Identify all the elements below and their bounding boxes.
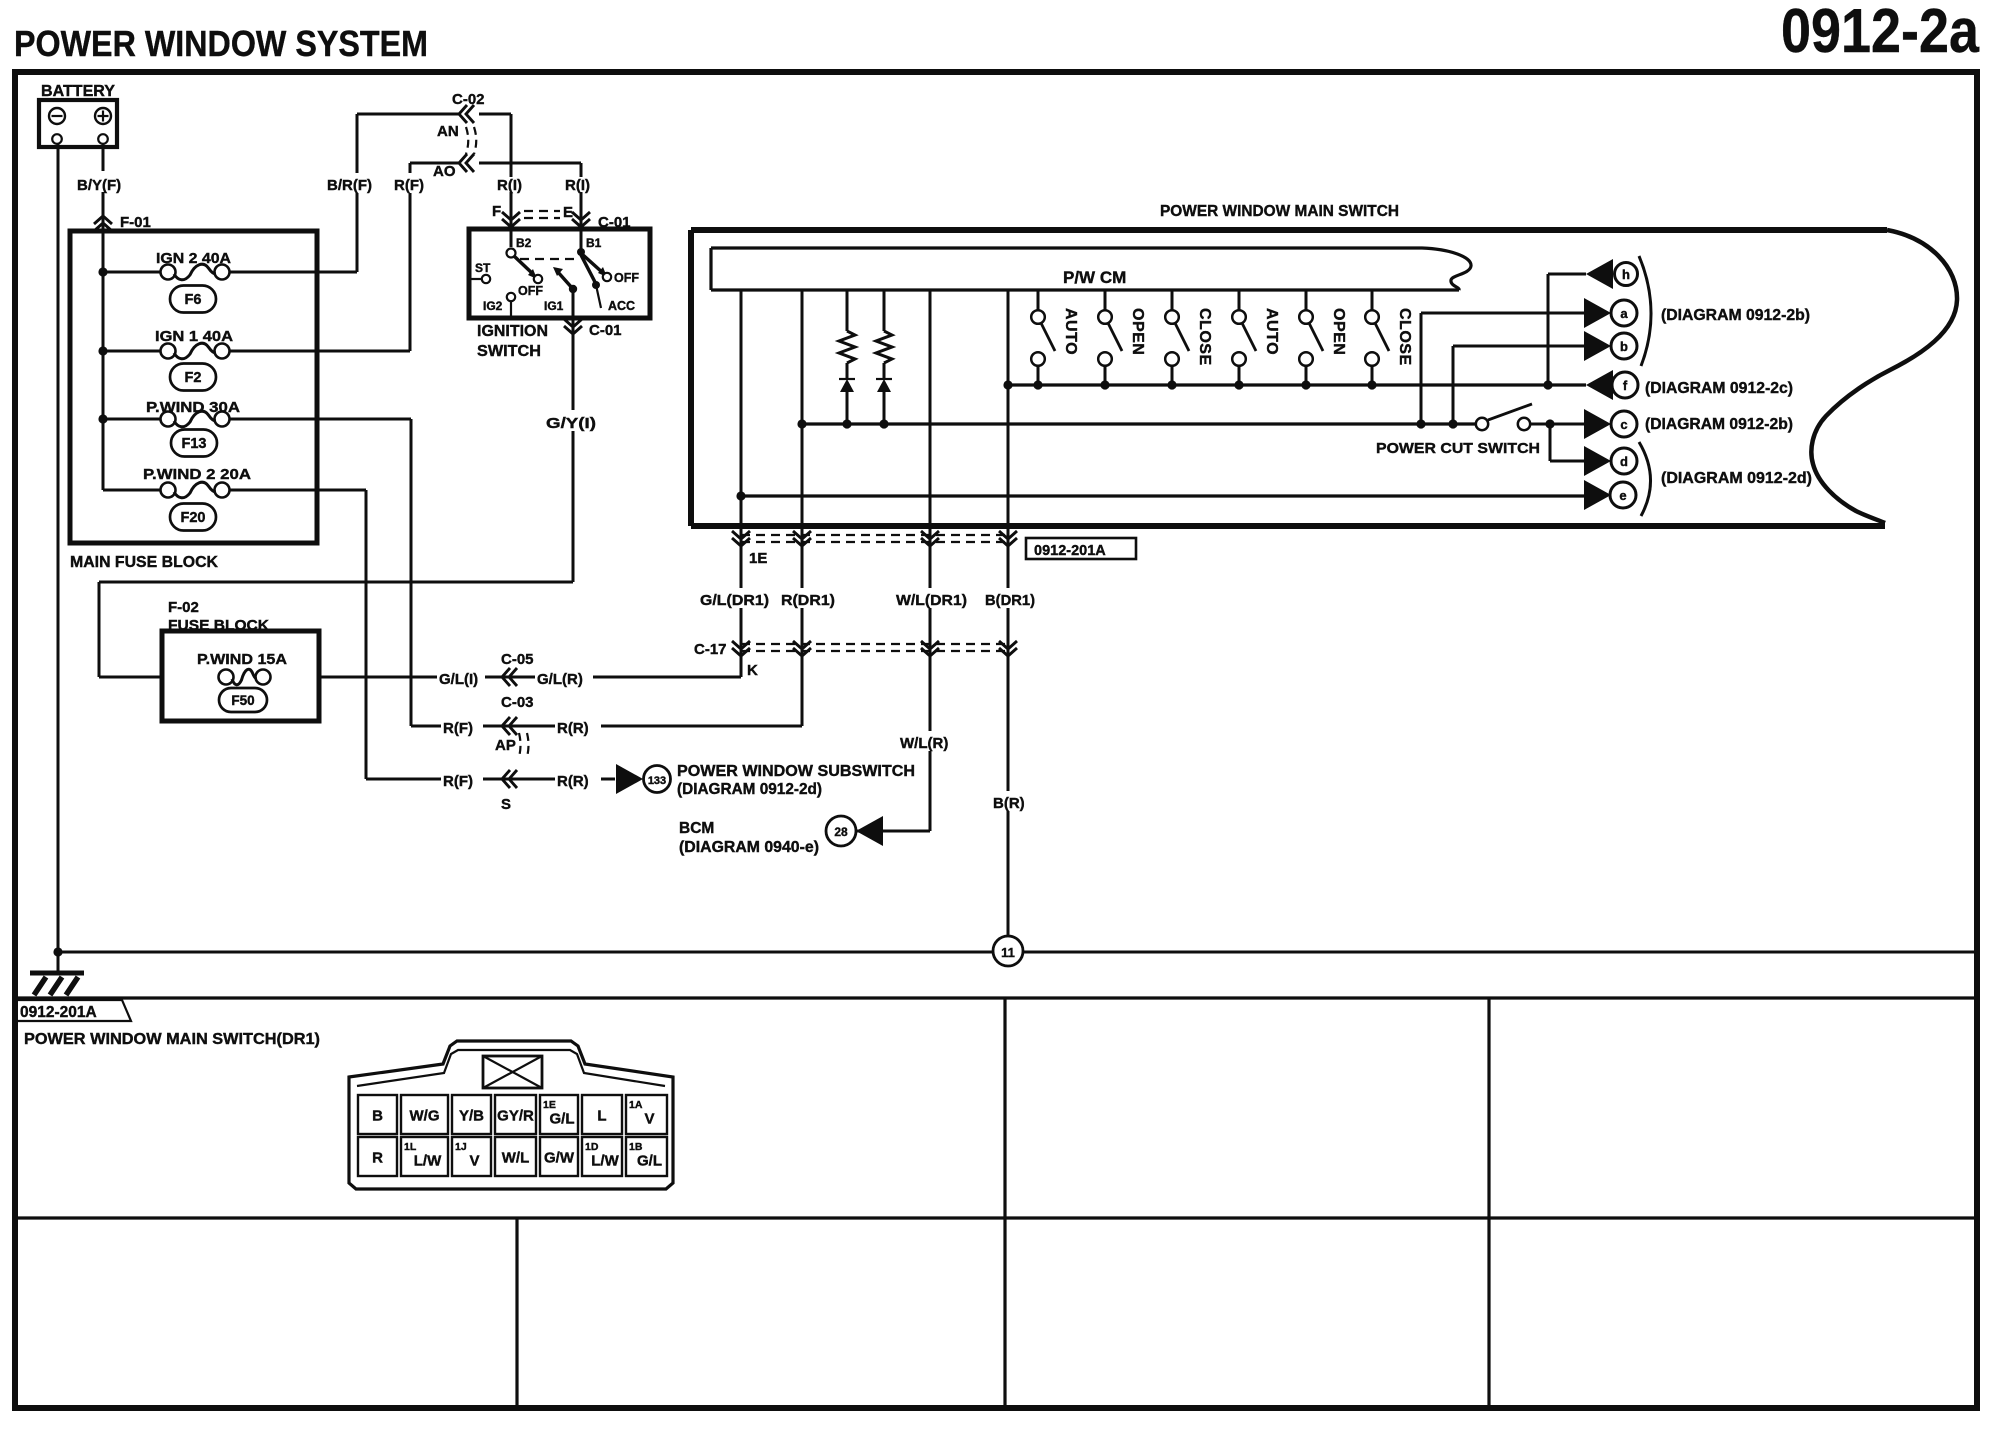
svg-text:G/L(I): G/L(I) — [439, 671, 478, 688]
svg-text:W/G: W/G — [410, 1108, 440, 1125]
svg-text:GY/R: GY/R — [497, 1108, 534, 1125]
svg-text:C-05: C-05 — [501, 651, 534, 668]
svg-text:11: 11 — [1001, 945, 1015, 960]
svg-text:ACC: ACC — [608, 299, 635, 313]
svg-text:B/Y(F): B/Y(F) — [77, 177, 121, 194]
svg-text:G/L: G/L — [637, 1153, 662, 1170]
svg-text:IG2: IG2 — [483, 299, 503, 313]
svg-text:AO: AO — [433, 163, 456, 180]
svg-text:POWER WINDOW MAIN SWITCH: POWER WINDOW MAIN SWITCH — [1160, 203, 1399, 220]
svg-text:OPEN: OPEN — [1330, 308, 1347, 355]
svg-text:1B: 1B — [629, 1141, 643, 1153]
svg-text:B/R(F): B/R(F) — [327, 177, 372, 194]
svg-text:G/W: G/W — [544, 1150, 575, 1167]
svg-text:B(R): B(R) — [993, 795, 1025, 812]
svg-text:P.WIND 2 20A: P.WIND 2 20A — [143, 466, 251, 483]
svg-text:(DIAGRAM 0912-2b): (DIAGRAM 0912-2b) — [1661, 307, 1810, 324]
svg-text:L/W: L/W — [591, 1153, 619, 1170]
svg-text:B(DR1): B(DR1) — [985, 592, 1035, 609]
svg-text:(DIAGRAM 0912-2d): (DIAGRAM 0912-2d) — [677, 781, 822, 798]
svg-text:BATTERY: BATTERY — [41, 83, 115, 100]
svg-text:SWITCH: SWITCH — [477, 343, 541, 360]
svg-text:IGNITION: IGNITION — [477, 323, 548, 340]
svg-text:C-02: C-02 — [452, 91, 485, 108]
svg-text:F20: F20 — [181, 510, 206, 526]
svg-text:1L: 1L — [404, 1141, 417, 1153]
svg-text:G/L: G/L — [550, 1111, 575, 1128]
svg-text:OFF: OFF — [518, 284, 543, 298]
svg-text:R(R): R(R) — [557, 720, 589, 737]
svg-text:1E: 1E — [749, 550, 767, 567]
svg-text:V: V — [644, 1111, 654, 1128]
svg-text:R(F): R(F) — [443, 773, 473, 790]
svg-text:W/L: W/L — [502, 1150, 530, 1167]
svg-text:CLOSE: CLOSE — [1196, 308, 1213, 366]
svg-text:Y/B: Y/B — [459, 1108, 484, 1125]
svg-text:R(R): R(R) — [557, 773, 589, 790]
svg-text:B2: B2 — [516, 236, 532, 250]
svg-text:G/L(R): G/L(R) — [537, 671, 583, 688]
svg-text:F-02: F-02 — [168, 599, 199, 616]
svg-text:F: F — [492, 203, 501, 220]
svg-text:F2: F2 — [185, 370, 202, 386]
svg-text:F13: F13 — [182, 436, 207, 452]
svg-text:0912-2a: 0912-2a — [1781, 0, 1979, 66]
svg-text:d: d — [1620, 454, 1628, 469]
svg-text:POWER CUT SWITCH: POWER CUT SWITCH — [1376, 440, 1540, 457]
svg-text:c: c — [1620, 417, 1627, 432]
svg-text:BCM: BCM — [679, 820, 714, 837]
svg-text:POWER WINDOW SYSTEM: POWER WINDOW SYSTEM — [14, 23, 428, 64]
svg-text:B: B — [372, 1108, 383, 1125]
svg-text:e: e — [1619, 488, 1626, 503]
svg-text:R(DR1): R(DR1) — [781, 592, 835, 609]
svg-text:G/Y(I): G/Y(I) — [546, 415, 596, 432]
svg-text:POWER WINDOW MAIN SWITCH(DR1): POWER WINDOW MAIN SWITCH(DR1) — [24, 1031, 320, 1048]
svg-text:OFF: OFF — [614, 271, 639, 285]
svg-text:1D: 1D — [585, 1141, 599, 1153]
svg-text:AUTO: AUTO — [1062, 308, 1079, 355]
svg-text:(DIAGRAM 0912-2d): (DIAGRAM 0912-2d) — [1661, 470, 1812, 487]
svg-text:R(F): R(F) — [394, 177, 424, 194]
svg-text:F6: F6 — [185, 292, 202, 308]
svg-text:(DIAGRAM 0912-2b): (DIAGRAM 0912-2b) — [1645, 416, 1793, 433]
svg-text:F-01: F-01 — [120, 214, 151, 231]
svg-text:28: 28 — [834, 825, 848, 839]
svg-text:S: S — [501, 796, 511, 813]
svg-text:AN: AN — [437, 123, 459, 140]
svg-text:K: K — [747, 662, 758, 679]
svg-text:R(I): R(I) — [565, 177, 590, 194]
svg-text:(DIAGRAM 0940-e): (DIAGRAM 0940-e) — [679, 839, 819, 856]
svg-text:POWER WINDOW SUBSWITCH: POWER WINDOW SUBSWITCH — [677, 763, 915, 780]
svg-text:G/L(DR1): G/L(DR1) — [700, 592, 769, 609]
svg-text:AUTO: AUTO — [1263, 308, 1280, 355]
svg-text:W/L(DR1): W/L(DR1) — [896, 592, 967, 609]
svg-text:0912-201A: 0912-201A — [1034, 543, 1106, 559]
svg-text:C-03: C-03 — [501, 694, 534, 711]
svg-text:1E: 1E — [543, 1099, 556, 1111]
svg-text:C-17: C-17 — [694, 641, 727, 658]
svg-text:E: E — [563, 204, 573, 221]
svg-text:133: 133 — [648, 775, 666, 787]
svg-text:OPEN: OPEN — [1129, 308, 1146, 355]
svg-text:AP: AP — [495, 737, 516, 754]
svg-text:P/W CM: P/W CM — [1063, 268, 1126, 287]
svg-text:f: f — [1623, 378, 1628, 393]
svg-text:1J: 1J — [455, 1141, 467, 1153]
svg-text:(DIAGRAM 0912-2c): (DIAGRAM 0912-2c) — [1645, 380, 1793, 397]
svg-text:b: b — [1620, 339, 1628, 354]
svg-text:MAIN FUSE BLOCK: MAIN FUSE BLOCK — [70, 554, 219, 571]
svg-text:0912-201A: 0912-201A — [20, 1004, 97, 1021]
svg-text:F50: F50 — [231, 693, 254, 708]
svg-text:R: R — [372, 1150, 383, 1167]
svg-text:h: h — [1622, 267, 1630, 282]
svg-text:R(F): R(F) — [443, 720, 473, 737]
svg-text:CLOSE: CLOSE — [1396, 308, 1413, 366]
svg-text:IG1: IG1 — [544, 299, 564, 313]
svg-text:P.WIND 15A: P.WIND 15A — [197, 651, 287, 668]
svg-text:L/W: L/W — [414, 1153, 442, 1170]
svg-text:V: V — [469, 1153, 479, 1170]
svg-text:W/L(R): W/L(R) — [900, 735, 948, 752]
svg-text:B1: B1 — [586, 236, 602, 250]
svg-text:R(I): R(I) — [497, 177, 522, 194]
svg-text:1A: 1A — [629, 1099, 643, 1111]
svg-text:C-01: C-01 — [589, 322, 622, 339]
svg-text:a: a — [1620, 306, 1628, 321]
svg-text:ST: ST — [475, 261, 491, 275]
svg-text:L: L — [597, 1108, 606, 1125]
